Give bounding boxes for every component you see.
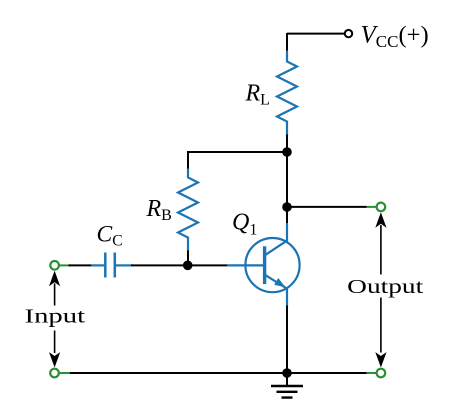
wire bottom rail bbox=[69, 372, 367, 374]
wire bottom right green stub bbox=[367, 372, 377, 374]
arrow output bottom head bbox=[375, 352, 386, 367]
terminal input bottom bbox=[50, 369, 59, 378]
terminal output top bbox=[377, 203, 386, 212]
wire main vertical RL bottom to collector bbox=[286, 135, 288, 224]
capacitor CC plates bbox=[105, 253, 115, 278]
arrow input line lower bbox=[54, 331, 56, 354]
node junction base bbox=[183, 261, 193, 271]
arrow output line upper bbox=[380, 225, 382, 275]
transistor Q1 base bar bbox=[263, 246, 266, 284]
transistor Q1 collector lead bbox=[286, 223, 288, 241]
svg-text:Output: Output bbox=[347, 276, 423, 298]
ground stub bbox=[286, 373, 288, 386]
transistor Q1 base lead bbox=[227, 264, 264, 266]
ground bars bbox=[271, 386, 303, 398]
terminal Vcc open circle bbox=[345, 30, 352, 37]
node junction ground bbox=[282, 368, 292, 378]
svg-text:Input: Input bbox=[25, 306, 86, 328]
arrow output top head bbox=[375, 212, 386, 227]
wire RB top horizontal bbox=[188, 151, 287, 153]
arrow input top head bbox=[49, 271, 60, 286]
resistor RB bbox=[178, 169, 198, 252]
wire bottom left green stub bbox=[59, 372, 70, 374]
transistor Q1 collector diagonal bbox=[266, 240, 288, 254]
wire input to capacitor bbox=[69, 264, 92, 266]
arrow output line lower bbox=[380, 298, 382, 353]
transistor Q1 emitter arrow bbox=[274, 278, 285, 287]
wire output top green stub bbox=[367, 206, 377, 208]
resistor RL bbox=[277, 51, 297, 136]
wire input green stub bbox=[59, 264, 70, 266]
terminal input top bbox=[50, 261, 59, 270]
wire RB top lead bbox=[187, 151, 189, 170]
transistor Q1 circle bbox=[245, 238, 299, 292]
terminal output bottom bbox=[377, 369, 386, 378]
wire emitter to ground rail bbox=[286, 306, 288, 374]
transistor Q1 emitter diagonal bbox=[266, 275, 288, 289]
wire output top bbox=[287, 206, 367, 208]
arrow input line upper bbox=[54, 284, 56, 306]
wire RB bottom lead bbox=[187, 251, 189, 266]
wire capacitor to base node bbox=[131, 264, 228, 266]
wire top rail to Vcc terminal bbox=[287, 33, 345, 35]
capacitor CC right lead bbox=[116, 264, 132, 266]
transistor Q1 emitter lead bbox=[286, 288, 288, 307]
node junction RL bottom bbox=[282, 147, 292, 157]
node junction collector tap bbox=[282, 202, 292, 212]
arrow input bottom head bbox=[49, 352, 60, 367]
wire main vertical top bbox=[286, 33, 288, 52]
capacitor CC left lead bbox=[91, 264, 104, 266]
